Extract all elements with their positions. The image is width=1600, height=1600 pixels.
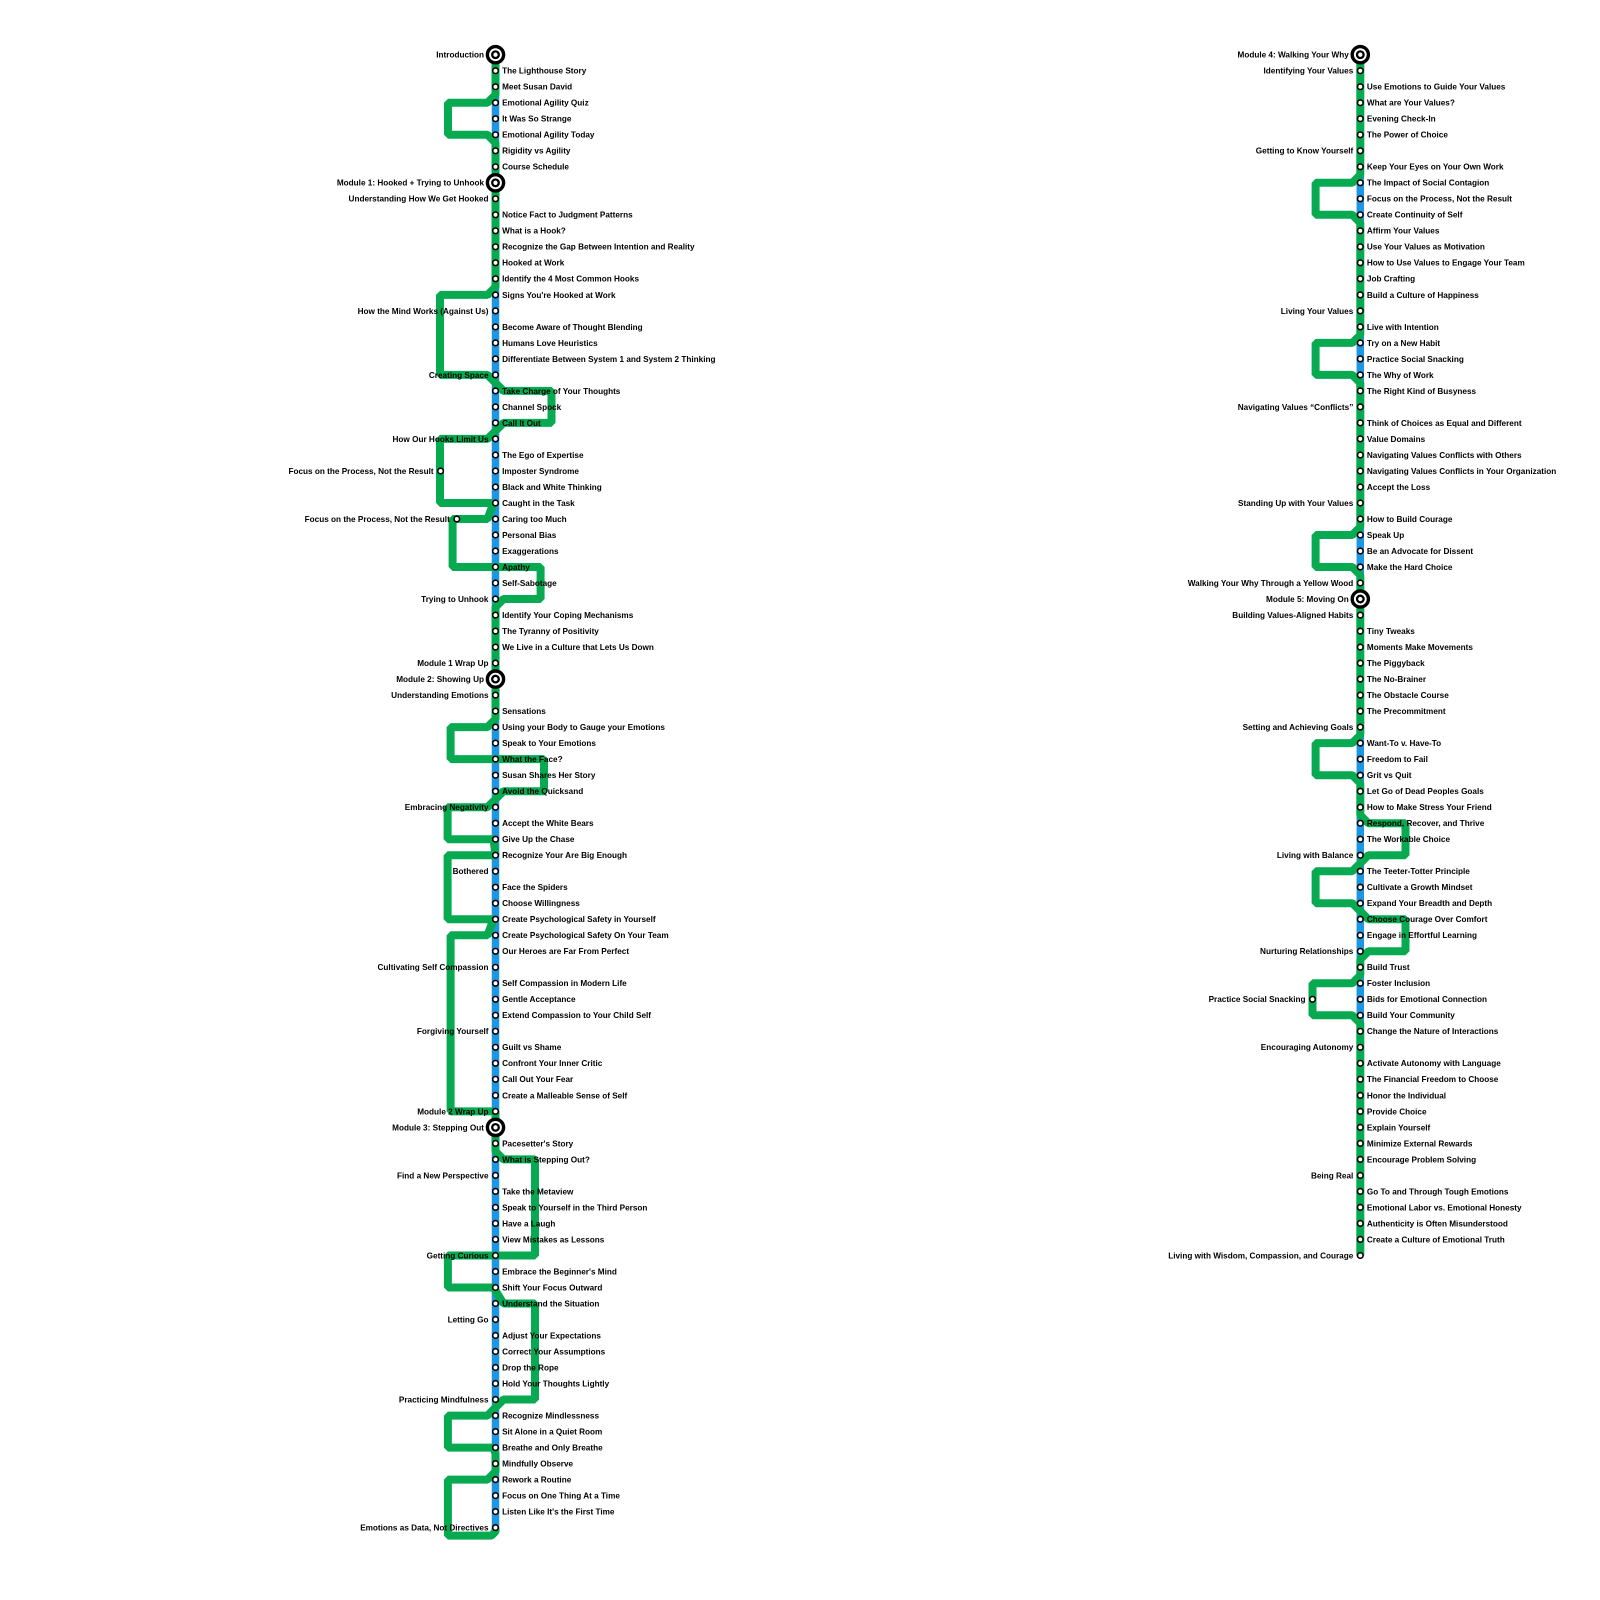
station: Adjust Your Expectations <box>493 1333 499 1339</box>
svg-text:The Piggyback: The Piggyback <box>1367 659 1425 668</box>
station: Recognize Your Are Big Enough <box>493 852 499 858</box>
wire: green route, left column <box>440 55 552 1536</box>
station: Create Psychological Safety in Yourself <box>493 916 499 922</box>
svg-text:Choose Willingness: Choose Willingness <box>502 899 580 908</box>
station: Recognize Mindlessness <box>493 1413 499 1419</box>
station: Focus on the Process, Not the Result <box>454 516 460 522</box>
station: Emotional Labor vs. Emotional Honesty <box>1358 1205 1364 1211</box>
station: Create a Malleable Sense of Self <box>493 1093 499 1099</box>
station: Building Values-Aligned Habits <box>1358 612 1364 618</box>
svg-text:What is a Hook?: What is a Hook? <box>502 227 566 236</box>
station: Change the Nature of Interactions <box>1358 1029 1364 1035</box>
svg-text:Bothered: Bothered <box>453 867 489 876</box>
svg-text:Moments Make Movements: Moments Make Movements <box>1367 643 1473 652</box>
station: The Teeter-Totter Principle <box>1358 868 1364 874</box>
station: Correct Your Assumptions <box>493 1349 499 1355</box>
svg-text:Drop the Rope: Drop the Rope <box>502 1363 559 1372</box>
station: Respond, Recover, and Thrive <box>1358 820 1364 826</box>
svg-text:Identify the 4 Most Common Hoo: Identify the 4 Most Common Hooks <box>502 275 639 284</box>
station: Explain Yourself <box>1358 1125 1364 1131</box>
station: Job Crafting <box>1358 276 1364 282</box>
module station: Introduction <box>487 47 503 63</box>
station: Practice Social Snacking <box>1358 356 1364 362</box>
svg-text:Hold Your Thoughts Lightly: Hold Your Thoughts Lightly <box>502 1379 609 1388</box>
station: Take the Metaview <box>493 1189 499 1195</box>
svg-text:Keep Your Eyes on Your Own Wor: Keep Your Eyes on Your Own Work <box>1367 163 1504 172</box>
station: Accept the Loss <box>1358 484 1364 490</box>
station: Caught in the Task <box>493 500 499 506</box>
svg-text:Caring too Much: Caring too Much <box>502 515 567 524</box>
svg-text:Living with Wisdom, Compassion: Living with Wisdom, Compassion, and Cour… <box>1168 1251 1354 1260</box>
svg-text:The Right Kind of Busyness: The Right Kind of Busyness <box>1367 387 1477 396</box>
station: Self Compassion in Modern Life <box>493 981 499 987</box>
svg-text:What are Your Values?: What are Your Values? <box>1367 99 1455 108</box>
svg-text:Create a Culture of Emotional: Create a Culture of Emotional Truth <box>1367 1235 1505 1244</box>
svg-text:Focus on One Thing At a Time: Focus on One Thing At a Time <box>502 1492 620 1501</box>
station: Pacesetter's Story <box>493 1141 499 1147</box>
station: Walking Your Why Through a Yellow Wood <box>1358 580 1364 586</box>
station: Sit Alone in a Quiet Room <box>493 1429 499 1435</box>
svg-text:Have a Laugh: Have a Laugh <box>502 1219 555 1228</box>
svg-text:The Why of Work: The Why of Work <box>1367 371 1434 380</box>
svg-text:Face the Spiders: Face the Spiders <box>502 883 568 892</box>
svg-text:Identifying Your Values: Identifying Your Values <box>1264 67 1354 76</box>
svg-text:The Teeter-Totter Principle: The Teeter-Totter Principle <box>1367 867 1470 876</box>
station: Self-Sabotage <box>493 580 499 586</box>
station: How Our Hooks Limit Us <box>493 436 499 442</box>
svg-text:Think of Choices as Equal and: Think of Choices as Equal and Different <box>1367 419 1522 428</box>
module station: Module 2: Showing Up <box>487 671 503 687</box>
station: Signs You're Hooked at Work <box>493 292 499 298</box>
svg-text:Module 2: Showing Up: Module 2: Showing Up <box>396 675 484 684</box>
station: The Power of Choice <box>1358 132 1364 138</box>
svg-text:Living with Balance: Living with Balance <box>1277 851 1354 860</box>
svg-text:Being Real: Being Real <box>1311 1171 1353 1180</box>
station: Hold Your Thoughts Lightly <box>493 1381 499 1387</box>
station: Authenticity is Often Misunderstood <box>1358 1221 1364 1227</box>
svg-text:Nurturing Relationships: Nurturing Relationships <box>1260 947 1354 956</box>
station: Value Domains <box>1358 436 1364 442</box>
svg-text:Living Your Values: Living Your Values <box>1281 307 1354 316</box>
svg-text:Mindfully Observe: Mindfully Observe <box>502 1460 573 1469</box>
svg-text:Navigating Values Conflicts in: Navigating Values Conflicts in Your Orga… <box>1367 467 1556 476</box>
svg-text:Module 3: Stepping Out: Module 3: Stepping Out <box>392 1123 484 1132</box>
svg-text:Understanding Emotions: Understanding Emotions <box>391 691 489 700</box>
station: Have a Laugh <box>493 1221 499 1227</box>
station: Black and White Thinking <box>493 484 499 490</box>
station: The Workable Choice <box>1358 836 1364 842</box>
station: We Live in a Culture that Lets Us Down <box>493 644 499 650</box>
station: Go To and Through Tough Emotions <box>1358 1189 1364 1195</box>
svg-text:Self Compassion in Modern Life: Self Compassion in Modern Life <box>502 979 627 988</box>
svg-text:Build Trust: Build Trust <box>1367 963 1410 972</box>
svg-text:Recognize the Gap Between Inte: Recognize the Gap Between Intention and … <box>502 243 695 252</box>
svg-text:Susan Shares Her Story: Susan Shares Her Story <box>502 771 596 780</box>
svg-text:How to Use Values to Engage Yo: How to Use Values to Engage Your Team <box>1367 259 1525 268</box>
station: Navigating Values Conflicts with Others <box>1358 452 1364 458</box>
station: Navigating Values Conflicts in Your Organization <box>1358 468 1364 474</box>
svg-text:It Was So Strange: It Was So Strange <box>502 115 572 124</box>
station: The Precommitment <box>1358 708 1364 714</box>
station: How to Build Courage <box>1358 516 1364 522</box>
svg-text:Minimize External Rewards: Minimize External Rewards <box>1367 1139 1473 1148</box>
svg-text:Sit Alone in a Quiet Room: Sit Alone in a Quiet Room <box>502 1428 602 1437</box>
station: The Impact of Social Contagion <box>1358 180 1364 186</box>
svg-text:Pacesetter's Story: Pacesetter's Story <box>502 1139 574 1148</box>
station: Living with Balance <box>1358 852 1364 858</box>
svg-text:Emotional Labor vs. Emotional: Emotional Labor vs. Emotional Honesty <box>1367 1203 1522 1212</box>
svg-text:Shift Your Focus Outward: Shift Your Focus Outward <box>502 1283 602 1292</box>
station: Emotional Agility Today <box>493 132 499 138</box>
station: Foster Inclusion <box>1358 981 1364 987</box>
station: Practicing Mindfulness <box>493 1397 499 1403</box>
svg-text:Activate Autonomy with Languag: Activate Autonomy with Language <box>1367 1059 1501 1068</box>
station: The Tyranny of Positivity <box>493 628 499 634</box>
station: Apathy <box>493 564 499 570</box>
svg-text:Build Your Community: Build Your Community <box>1367 1011 1455 1020</box>
svg-text:Encourage Problem Solving: Encourage Problem Solving <box>1367 1155 1476 1164</box>
station: Encourage Problem Solving <box>1358 1157 1364 1163</box>
svg-text:Focus on the Process, Not the: Focus on the Process, Not the Result <box>1367 195 1512 204</box>
svg-text:Use Emotions to Guide Your Val: Use Emotions to Guide Your Values <box>1367 83 1506 92</box>
svg-text:Speak to Yourself in the Third: Speak to Yourself in the Third Person <box>502 1203 647 1212</box>
svg-text:Build a Culture of Happiness: Build a Culture of Happiness <box>1367 291 1479 300</box>
svg-text:Respond, Recover, and Thrive: Respond, Recover, and Thrive <box>1367 819 1485 828</box>
svg-text:Building Values-Aligned Habits: Building Values-Aligned Habits <box>1232 611 1353 620</box>
station: The Ego of Expertise <box>493 452 499 458</box>
station: Take Charge of Your Thoughts <box>493 388 499 394</box>
station: Practice Social Snacking <box>1310 997 1316 1003</box>
svg-text:Navigating Values Conflicts wi: Navigating Values Conflicts with Others <box>1367 451 1522 460</box>
station: Listen Like It's the First Time <box>493 1509 499 1515</box>
module station: Module 1: Hooked + Trying to Unhook <box>487 175 503 191</box>
station: Provide Choice <box>1358 1109 1364 1115</box>
module station: Module 3: Stepping Out <box>487 1119 503 1135</box>
svg-text:Create a Malleable Sense of Se: Create a Malleable Sense of Self <box>502 1091 627 1100</box>
station: How the Mind Works (Against Us) <box>493 308 499 314</box>
svg-text:Create Psychological Safety On: Create Psychological Safety On Your Team <box>502 931 669 940</box>
station: Focus on One Thing At a Time <box>493 1493 499 1499</box>
svg-text:Apathy: Apathy <box>502 563 530 572</box>
wire: blue trunk line, right column <box>1357 55 1365 1256</box>
svg-text:Module 2 Wrap Up: Module 2 Wrap Up <box>417 1107 488 1116</box>
svg-text:Our Heroes are Far From Perfec: Our Heroes are Far From Perfect <box>502 947 629 956</box>
svg-text:The Obstacle Course: The Obstacle Course <box>1367 691 1449 700</box>
station: Getting to Know Yourself <box>1358 148 1364 154</box>
svg-text:Try on a New Habit: Try on a New Habit <box>1367 339 1441 348</box>
station: Moments Make Movements <box>1358 644 1364 650</box>
station: Build Trust <box>1358 965 1364 971</box>
station: Identifying Your Values <box>1358 68 1364 74</box>
station: Breathe and Only Breathe <box>493 1445 499 1451</box>
svg-text:Getting Curious: Getting Curious <box>427 1251 489 1260</box>
station: Rework a Routine <box>493 1477 499 1483</box>
station: Minimize External Rewards <box>1358 1141 1364 1147</box>
svg-text:Tiny Tweaks: Tiny Tweaks <box>1367 627 1415 636</box>
station: Living Your Values <box>1358 308 1364 314</box>
wire: green route, right column <box>1313 55 1406 1256</box>
svg-text:The Workable Choice: The Workable Choice <box>1367 835 1451 844</box>
svg-text:Grit vs Quit: Grit vs Quit <box>1367 771 1412 780</box>
svg-text:Authenticity is Often Misunder: Authenticity is Often Misunderstood <box>1367 1219 1508 1228</box>
svg-text:The Lighthouse Story: The Lighthouse Story <box>502 67 587 76</box>
station: Be an Advocate for Dissent <box>1358 548 1364 554</box>
svg-text:Breathe and Only Breathe: Breathe and Only Breathe <box>502 1444 603 1453</box>
svg-text:Value Domains: Value Domains <box>1367 435 1426 444</box>
station: Imposter Syndrome <box>493 468 499 474</box>
station: Freedom to Fail <box>1358 756 1364 762</box>
station: Use Emotions to Guide Your Values <box>1358 84 1364 90</box>
station: Give Up the Chase <box>493 836 499 842</box>
svg-text:What the Face?: What the Face? <box>502 755 563 764</box>
station: Module 1 Wrap Up <box>493 660 499 666</box>
svg-text:Encouraging Autonomy: Encouraging Autonomy <box>1261 1043 1354 1052</box>
svg-text:Embracing Negativity: Embracing Negativity <box>405 803 489 812</box>
svg-text:Affirm Your Values: Affirm Your Values <box>1367 227 1440 236</box>
station: Affirm Your Values <box>1358 228 1364 234</box>
svg-text:Walking Your Why Through a Yel: Walking Your Why Through a Yellow Wood <box>1188 579 1354 588</box>
station: Mindfully Observe <box>493 1461 499 1467</box>
svg-text:Guilt vs Shame: Guilt vs Shame <box>502 1043 562 1052</box>
svg-text:The Impact of Social Contagion: The Impact of Social Contagion <box>1367 179 1489 188</box>
svg-text:Adjust Your Expectations: Adjust Your Expectations <box>502 1331 601 1340</box>
svg-text:Job Crafting: Job Crafting <box>1367 275 1415 284</box>
svg-text:Focus on the Process, Not the: Focus on the Process, Not the Result <box>288 467 433 476</box>
station: The Financial Freedom to Choose <box>1358 1077 1364 1083</box>
svg-text:Foster Inclusion: Foster Inclusion <box>1367 979 1430 988</box>
svg-text:Speak Up: Speak Up <box>1367 531 1404 540</box>
station: Emotions as Data, Not Directives <box>493 1525 499 1531</box>
station: Identify Your Coping Mechanisms <box>493 612 499 618</box>
svg-text:Create Continuity of Self: Create Continuity of Self <box>1367 211 1463 220</box>
svg-text:Rigidity vs Agility: Rigidity vs Agility <box>502 147 571 156</box>
svg-text:Choose Courage Over Comfort: Choose Courage Over Comfort <box>1367 915 1488 924</box>
svg-text:Take Charge of Your Thoughts: Take Charge of Your Thoughts <box>502 387 621 396</box>
svg-text:Emotions as Data, Not Directiv: Emotions as Data, Not Directives <box>360 1524 489 1533</box>
svg-text:Engage in Effortful Learning: Engage in Effortful Learning <box>1367 931 1477 940</box>
svg-text:The Ego of Expertise: The Ego of Expertise <box>502 451 584 460</box>
station: Find a New Perspective <box>493 1173 499 1179</box>
station: Standing Up with Your Values <box>1358 500 1364 506</box>
station: Encouraging Autonomy <box>1358 1045 1364 1051</box>
station: Bids for Emotional Connection <box>1358 997 1364 1003</box>
svg-text:Understanding How We Get Hooke: Understanding How We Get Hooked <box>349 195 489 204</box>
station: It Was So Strange <box>493 116 499 122</box>
station: Hooked at Work <box>493 260 499 266</box>
svg-text:Create Psychological Safety in: Create Psychological Safety in Yourself <box>502 915 656 924</box>
station: Being Real <box>1358 1173 1364 1179</box>
wire: blue trunk line, left column <box>492 55 500 1528</box>
station: Nurturing Relationships <box>1358 949 1364 955</box>
station: Let Go of Dead Peoples Goals <box>1358 788 1364 794</box>
svg-text:Trying to Unhook: Trying to Unhook <box>421 595 489 604</box>
svg-text:Go To and Through Tough Emotio: Go To and Through Tough Emotions <box>1367 1187 1509 1196</box>
svg-text:Live with Intention: Live with Intention <box>1367 323 1439 332</box>
station: Grit vs Quit <box>1358 772 1364 778</box>
svg-text:Confront Your Inner Critic: Confront Your Inner Critic <box>502 1059 603 1068</box>
svg-text:Expand Your Breadth and Depth: Expand Your Breadth and Depth <box>1367 899 1492 908</box>
svg-text:Listen Like It's the First Tim: Listen Like It's the First Time <box>502 1508 615 1517</box>
svg-text:View Mistakes as Lessons: View Mistakes as Lessons <box>502 1235 605 1244</box>
svg-text:Find a New Perspective: Find a New Perspective <box>397 1171 489 1180</box>
station: Caring too Much <box>493 516 499 522</box>
station: Recognize the Gap Between Intention and Reality <box>493 244 499 250</box>
svg-text:We Live in a Culture that Lets: We Live in a Culture that Lets Us Down <box>502 643 654 652</box>
station: Understanding How We Get Hooked <box>493 196 499 202</box>
svg-text:Getting to Know Yourself: Getting to Know Yourself <box>1256 147 1354 156</box>
svg-text:The Financial Freedom to Choos: The Financial Freedom to Choose <box>1367 1075 1499 1084</box>
svg-text:Change the Nature of Interacti: Change the Nature of Interactions <box>1367 1027 1499 1036</box>
svg-text:Signs You're Hooked at Work: Signs You're Hooked at Work <box>502 291 616 300</box>
station: Understanding Emotions <box>493 692 499 698</box>
svg-text:How to Make Stress Your Friend: How to Make Stress Your Friend <box>1367 803 1492 812</box>
station: Honor the Individual <box>1358 1093 1364 1099</box>
station: Become Aware of Thought Blending <box>493 324 499 330</box>
svg-text:Want-To v. Have-To: Want-To v. Have-To <box>1367 739 1441 748</box>
station: Gentle Acceptance <box>493 997 499 1003</box>
station: Sensations <box>493 708 499 714</box>
station: Setting and Achieving Goals <box>1358 724 1364 730</box>
svg-text:Freedom to Fail: Freedom to Fail <box>1367 755 1428 764</box>
station: Build Your Community <box>1358 1013 1364 1019</box>
station: Identify the 4 Most Common Hooks <box>493 276 499 282</box>
svg-text:The Tyranny of Positivity: The Tyranny of Positivity <box>502 627 599 636</box>
svg-text:Notice Fact to Judgment Patter: Notice Fact to Judgment Patterns <box>502 211 633 220</box>
svg-text:Accept the White Bears: Accept the White Bears <box>502 819 594 828</box>
station: Avoid the Quicksand <box>493 788 499 794</box>
station: Live with Intention <box>1358 324 1364 330</box>
station: Use Your Values as Motivation <box>1358 244 1364 250</box>
svg-text:Avoid the Quicksand: Avoid the Quicksand <box>502 787 583 796</box>
svg-text:Accept the Loss: Accept the Loss <box>1367 483 1431 492</box>
svg-text:Module 5: Moving On: Module 5: Moving On <box>1266 595 1349 604</box>
svg-text:Personal Bias: Personal Bias <box>502 531 557 540</box>
station: Shift Your Focus Outward <box>493 1285 499 1291</box>
station: Creating Space <box>493 372 499 378</box>
station: Getting Curious <box>493 1253 499 1259</box>
station: What is a Hook? <box>493 228 499 234</box>
svg-text:Bids for Emotional Connection: Bids for Emotional Connection <box>1367 995 1487 1004</box>
svg-text:The No-Brainer: The No-Brainer <box>1367 675 1427 684</box>
station: Speak Up <box>1358 532 1364 538</box>
svg-text:Practicing Mindfulness: Practicing Mindfulness <box>399 1395 489 1404</box>
svg-text:Using your Body to Gauge your: Using your Body to Gauge your Emotions <box>502 723 665 732</box>
svg-text:Hooked at Work: Hooked at Work <box>502 259 565 268</box>
station: Think of Choices as Equal and Different <box>1358 420 1364 426</box>
svg-text:Call Out Your Fear: Call Out Your Fear <box>502 1075 574 1084</box>
svg-text:The Power of Choice: The Power of Choice <box>1367 131 1448 140</box>
svg-text:Standing Up with Your Values: Standing Up with Your Values <box>1238 499 1354 508</box>
station: View Mistakes as Lessons <box>493 1237 499 1243</box>
svg-text:Sensations: Sensations <box>502 707 546 716</box>
svg-text:Be an Advocate for Dissent: Be an Advocate for Dissent <box>1367 547 1473 556</box>
svg-text:Call It Out: Call It Out <box>502 419 541 428</box>
station: Living with Wisdom, Compassion, and Courage <box>1358 1253 1364 1259</box>
svg-text:Forgiving Yourself: Forgiving Yourself <box>417 1027 489 1036</box>
station: Call It Out <box>493 420 499 426</box>
station: Face the Spiders <box>493 884 499 890</box>
svg-text:Recognize Your Are Big Enough: Recognize Your Are Big Enough <box>502 851 627 860</box>
station: The Obstacle Course <box>1358 692 1364 698</box>
station: Humans Love Heuristics <box>493 340 499 346</box>
svg-text:Identify Your Coping Mechanism: Identify Your Coping Mechanisms <box>502 611 634 620</box>
station: Create Continuity of Self <box>1358 212 1364 218</box>
station: Build a Culture of Happiness <box>1358 292 1364 298</box>
svg-text:Module 1 Wrap Up: Module 1 Wrap Up <box>417 659 488 668</box>
svg-text:How to Build Courage: How to Build Courage <box>1367 515 1453 524</box>
station: Choose Willingness <box>493 900 499 906</box>
station: Trying to Unhook <box>493 596 499 602</box>
station: Cultivate a Growth Mindset <box>1358 884 1364 890</box>
svg-text:Evening Check-In: Evening Check-In <box>1367 115 1436 124</box>
station: Rigidity vs Agility <box>493 148 499 154</box>
svg-text:Letting Go: Letting Go <box>448 1315 489 1324</box>
station: Using your Body to Gauge your Emotions <box>493 724 499 730</box>
station: Embracing Negativity <box>493 804 499 810</box>
svg-text:Differentiate Between System 1: Differentiate Between System 1 and Syste… <box>502 355 715 364</box>
station: Cultivating Self Compassion <box>493 965 499 971</box>
svg-text:Become Aware of Thought Blendi: Become Aware of Thought Blending <box>502 323 643 332</box>
svg-text:Caught in the Task: Caught in the Task <box>502 499 575 508</box>
station: What are Your Values? <box>1358 100 1364 106</box>
station: Letting Go <box>493 1317 499 1323</box>
svg-text:Let Go of Dead Peoples Goals: Let Go of Dead Peoples Goals <box>1367 787 1484 796</box>
station: Choose Courage Over Comfort <box>1358 916 1364 922</box>
svg-text:Extend Compassion to Your Chil: Extend Compassion to Your Child Self <box>502 1011 651 1020</box>
station: Personal Bias <box>493 532 499 538</box>
svg-text:How Our Hooks Limit Us: How Our Hooks Limit Us <box>393 435 489 444</box>
svg-text:Exaggerations: Exaggerations <box>502 547 559 556</box>
svg-text:Explain Yourself: Explain Yourself <box>1367 1123 1431 1132</box>
station: Make the Hard Choice <box>1358 564 1364 570</box>
svg-text:Give Up the Chase: Give Up the Chase <box>502 835 575 844</box>
svg-text:Rework a Routine: Rework a Routine <box>502 1476 572 1485</box>
svg-text:Emotional Agility Today: Emotional Agility Today <box>502 131 595 140</box>
station: Activate Autonomy with Language <box>1358 1061 1364 1067</box>
svg-text:Introduction: Introduction <box>436 51 484 60</box>
svg-text:Module 1: Hooked + Trying to U: Module 1: Hooked + Trying to Unhook <box>337 179 485 188</box>
station: Expand Your Breadth and Depth <box>1358 900 1364 906</box>
station: What the Face? <box>493 756 499 762</box>
station: The No-Brainer <box>1358 676 1364 682</box>
station: Module 2 Wrap Up <box>493 1109 499 1115</box>
station: Drop the Rope <box>493 1365 499 1371</box>
svg-text:How the Mind Works (Against Us: How the Mind Works (Against Us) <box>358 307 489 316</box>
station: Speak to Your Emotions <box>493 740 499 746</box>
svg-text:Understand the Situation: Understand the Situation <box>502 1299 599 1308</box>
svg-text:Embrace the Beginner's Mind: Embrace the Beginner's Mind <box>502 1267 617 1276</box>
station: Guilt vs Shame <box>493 1045 499 1051</box>
station: Understand the Situation <box>493 1301 499 1307</box>
station: Emotional Agility Quiz <box>493 100 499 106</box>
station: Tiny Tweaks <box>1358 628 1364 634</box>
station: Want-To v. Have-To <box>1358 740 1364 746</box>
station: Exaggerations <box>493 548 499 554</box>
svg-text:Cultivating Self Compassion: Cultivating Self Compassion <box>378 963 489 972</box>
svg-text:Recognize Mindlessness: Recognize Mindlessness <box>502 1412 599 1421</box>
svg-text:Cultivate a Growth Mindset: Cultivate a Growth Mindset <box>1367 883 1473 892</box>
station: Confront Your Inner Critic <box>493 1061 499 1067</box>
svg-text:Honor the Individual: Honor the Individual <box>1367 1091 1446 1100</box>
station: Channel Spock <box>493 404 499 410</box>
svg-text:Module 4: Walking Your Why: Module 4: Walking Your Why <box>1238 51 1350 60</box>
station: Call Out Your Fear <box>493 1077 499 1083</box>
station: Focus on the Process, Not the Result <box>438 468 444 474</box>
station: How to Use Values to Engage Your Team <box>1358 260 1364 266</box>
svg-text:Course Schedule: Course Schedule <box>502 163 569 172</box>
svg-text:Speak to Your Emotions: Speak to Your Emotions <box>502 739 596 748</box>
svg-text:Provide Choice: Provide Choice <box>1367 1107 1427 1116</box>
